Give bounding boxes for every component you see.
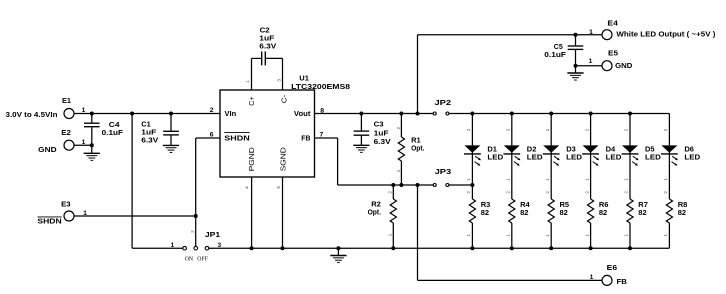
svg-text:1: 1: [506, 178, 511, 181]
IC U1 LTC3200EMS8: [220, 90, 315, 177]
svg-text:C+: C+: [247, 96, 256, 106]
svg-text:E1: E1: [62, 96, 71, 105]
capacitor C2 flying cap across pins 1 and 3: [251, 58, 253, 90]
svg-text:2: 2: [466, 128, 471, 131]
svg-text:LTC3200EMS8: LTC3200EMS8: [291, 82, 350, 91]
resistor R4 82: [509, 199, 515, 223]
node string 5 top junction: [628, 112, 632, 116]
svg-text:82: 82: [520, 208, 528, 217]
svg-text:FB: FB: [301, 134, 311, 143]
svg-text:LED: LED: [684, 152, 700, 161]
wire E3 to SHDN riser: [74, 215, 196, 217]
wire E4 riser and White LED Output wire: [417, 35, 419, 114]
svg-text:82: 82: [678, 208, 686, 217]
svg-text:Opt.: Opt.: [411, 144, 424, 153]
svg-text:JP3: JP3: [435, 167, 452, 176]
node string 4 top junction: [589, 112, 593, 116]
node R2 junction on FB rail: [391, 183, 395, 187]
svg-text:3: 3: [277, 79, 282, 82]
svg-text:Vout: Vout: [294, 109, 311, 118]
svg-text:0.1uF: 0.1uF: [102, 128, 124, 137]
node string 1 bottom junction: [470, 246, 474, 250]
svg-text:SHDN: SHDN: [37, 217, 61, 226]
svg-text:1: 1: [466, 234, 471, 237]
svg-text:FB: FB: [617, 277, 628, 286]
svg-text:2: 2: [466, 191, 471, 194]
svg-text:Opt.: Opt.: [368, 208, 381, 217]
node C3 junction: [359, 112, 363, 116]
svg-text:2: 2: [663, 191, 668, 194]
wire riser from input rail down to JP1 pin 1: [131, 114, 133, 249]
node input junction at JP1 riser: [130, 112, 134, 116]
svg-text:1: 1: [388, 233, 393, 236]
wire Vout rail pin 8 to JP2: [315, 113, 434, 115]
svg-text:2: 2: [396, 126, 401, 129]
diode D6 LED: [661, 145, 677, 152]
wire LED string 3 vertical: [550, 114, 552, 200]
resistor R3 82: [469, 199, 475, 223]
resistor R6 82: [588, 199, 594, 223]
capacitor C4: [91, 114, 93, 124]
node string 3 bottom junction: [549, 246, 553, 250]
node SHDN junction: [194, 214, 198, 218]
svg-text:LED: LED: [566, 152, 582, 161]
wire LED string 2 vertical: [511, 114, 513, 200]
diode D3 LED: [543, 145, 559, 152]
svg-text:1: 1: [466, 178, 471, 181]
svg-text:C-: C-: [279, 94, 288, 103]
svg-text:1: 1: [624, 178, 629, 181]
wire LED string 1 vertical: [471, 114, 473, 200]
svg-text:1: 1: [506, 234, 511, 237]
svg-text:SHDN: SHDN: [224, 134, 249, 143]
svg-text:2: 2: [388, 191, 393, 194]
wire LED string 4 vertical: [590, 114, 592, 200]
svg-text:1: 1: [545, 234, 550, 237]
node PGND junction: [250, 246, 254, 250]
svg-text:2: 2: [663, 128, 668, 131]
svg-text:GND: GND: [38, 145, 57, 154]
svg-text:1: 1: [171, 242, 175, 249]
svg-text:JP1: JP1: [205, 230, 220, 239]
diode D4 LED: [583, 145, 599, 152]
jumper JP3: [433, 184, 436, 187]
svg-text:6.3V: 6.3V: [141, 135, 158, 144]
resistor R2 Opt.: [392, 185, 394, 199]
svg-text:C3: C3: [374, 119, 384, 128]
svg-text:2: 2: [584, 128, 589, 131]
svg-text:3.0V to 4.5VIn: 3.0V to 4.5VIn: [6, 110, 58, 119]
svg-text:SGND: SGND: [278, 147, 287, 171]
svg-text:2: 2: [624, 191, 629, 194]
svg-text:4: 4: [244, 186, 249, 189]
node R1 junction on FB rail: [399, 183, 403, 187]
svg-text:2: 2: [506, 128, 511, 131]
svg-text:82: 82: [638, 208, 646, 217]
wire FB rail to JP3 pin 1: [338, 184, 433, 186]
svg-text:E5: E5: [608, 49, 618, 58]
diode D1 LED: [464, 145, 480, 152]
svg-text:82: 82: [560, 208, 568, 217]
svg-text:0.1uF: 0.1uF: [544, 50, 566, 59]
svg-text:1: 1: [545, 178, 550, 181]
svg-text:1: 1: [663, 234, 668, 237]
node C5 bottom junction: [574, 64, 578, 68]
node input junction at C1: [169, 112, 173, 116]
svg-text:1: 1: [589, 58, 593, 65]
svg-text:1uF: 1uF: [374, 128, 389, 137]
ground below C4: [91, 145, 93, 153]
node string 2 bottom junction: [510, 246, 514, 250]
svg-text:2: 2: [190, 230, 195, 233]
ground symbol on ground rail: [336, 246, 340, 250]
svg-text:1: 1: [663, 178, 668, 181]
terminal E3: [64, 211, 74, 221]
node first string mid junction: [470, 183, 474, 187]
node E6 riser junction on FB rail: [416, 183, 420, 187]
wire SGND pin 5 to ground rail: [282, 177, 284, 248]
terminal E1: [64, 109, 74, 119]
svg-text:1: 1: [584, 178, 589, 181]
svg-text:LED: LED: [487, 152, 503, 161]
svg-text:GND: GND: [615, 61, 633, 70]
resistor R7 82: [627, 199, 633, 223]
node string 4 bottom junction: [589, 246, 593, 250]
wire LED string 5 vertical: [629, 114, 631, 200]
svg-text:E3: E3: [61, 200, 71, 209]
node SGND junction: [281, 246, 285, 250]
wire top LED rail from JP2 pin 2: [449, 113, 669, 115]
svg-text:VIn: VIn: [225, 109, 237, 118]
svg-text:ON: ON: [185, 257, 194, 263]
svg-text:E4: E4: [607, 19, 618, 28]
svg-text:2: 2: [210, 107, 214, 114]
svg-text:82: 82: [599, 208, 607, 217]
svg-text:1: 1: [589, 29, 593, 36]
node R1 junction: [399, 112, 403, 116]
resistor R1 Opt.: [400, 114, 402, 138]
node string 1 top junction: [470, 112, 474, 116]
svg-text:1: 1: [584, 234, 589, 237]
svg-text:82: 82: [481, 208, 489, 217]
node E2/C4 junction: [90, 143, 94, 147]
wire E2 to ground node: [74, 144, 92, 146]
wire PGND pin 4 to ground rail: [251, 177, 253, 248]
wire to E5: [576, 65, 603, 67]
svg-text:1: 1: [82, 107, 86, 114]
jumper JP1: [183, 246, 187, 250]
svg-text:1: 1: [396, 169, 401, 172]
node string 5 bottom junction: [628, 246, 632, 250]
svg-text:2: 2: [545, 191, 550, 194]
ground below C1: [163, 144, 179, 146]
node input junction at C4: [90, 112, 94, 116]
svg-text:E6: E6: [607, 263, 617, 272]
resistor R5 82: [548, 199, 554, 223]
terminal E4: [602, 30, 612, 40]
svg-text:6.3V: 6.3V: [259, 42, 276, 51]
wire SHDN net: chip pin 6 left and down to JP1 pin 2: [196, 137, 220, 139]
wire FB net: pin 7 right then down to FB rail: [315, 137, 338, 139]
capacitor C5: [575, 35, 577, 46]
svg-text:LED: LED: [606, 152, 622, 161]
wire ground rail from JP1 pin 3 to LED strings: [209, 247, 669, 249]
wire LED string 6 vertical: [668, 114, 670, 200]
overline for SHDN label: [37, 216, 61, 218]
svg-text:5: 5: [276, 186, 281, 189]
svg-text:PGND: PGND: [247, 147, 256, 171]
node C5 top junction: [574, 33, 578, 37]
terminal E6: [602, 275, 612, 285]
svg-text:OFF: OFF: [197, 257, 208, 263]
svg-text:2: 2: [545, 128, 550, 131]
svg-text:LED: LED: [527, 152, 543, 161]
svg-text:2: 2: [584, 191, 589, 194]
wire E6 riser and FB output wire: [417, 185, 419, 280]
node R2 bottom junction: [391, 246, 395, 250]
ground below C5: [575, 66, 577, 73]
resistor R8 82: [666, 199, 672, 223]
svg-text:White LED Output ( ~+5V ): White LED Output ( ~+5V ): [616, 29, 716, 38]
svg-text:6: 6: [210, 132, 214, 139]
svg-text:1: 1: [624, 234, 629, 237]
node E4 riser junction: [416, 112, 420, 116]
svg-text:1: 1: [245, 80, 250, 83]
terminal E5: [602, 61, 612, 71]
node string 2 top junction: [510, 112, 514, 116]
ground below C3: [353, 144, 369, 146]
terminal E2: [64, 140, 74, 150]
wire input rail E1 to VIn pin 2: [74, 113, 220, 115]
svg-text:2: 2: [506, 191, 511, 194]
capacitor C3: [360, 114, 362, 132]
wire JP3 pin 2 to first LED string: [449, 184, 472, 186]
svg-text:JP2: JP2: [435, 98, 452, 107]
svg-text:2: 2: [624, 128, 629, 131]
svg-text:E2: E2: [61, 128, 71, 137]
svg-text:1: 1: [590, 274, 594, 281]
jumper JP2: [433, 112, 436, 115]
node string 3 top junction: [549, 112, 553, 116]
capacitor C1: [170, 114, 172, 132]
diode D5 LED: [622, 145, 638, 152]
svg-text:LED: LED: [645, 152, 661, 161]
diode D2 LED: [504, 145, 520, 152]
svg-text:6.3V: 6.3V: [374, 137, 391, 146]
